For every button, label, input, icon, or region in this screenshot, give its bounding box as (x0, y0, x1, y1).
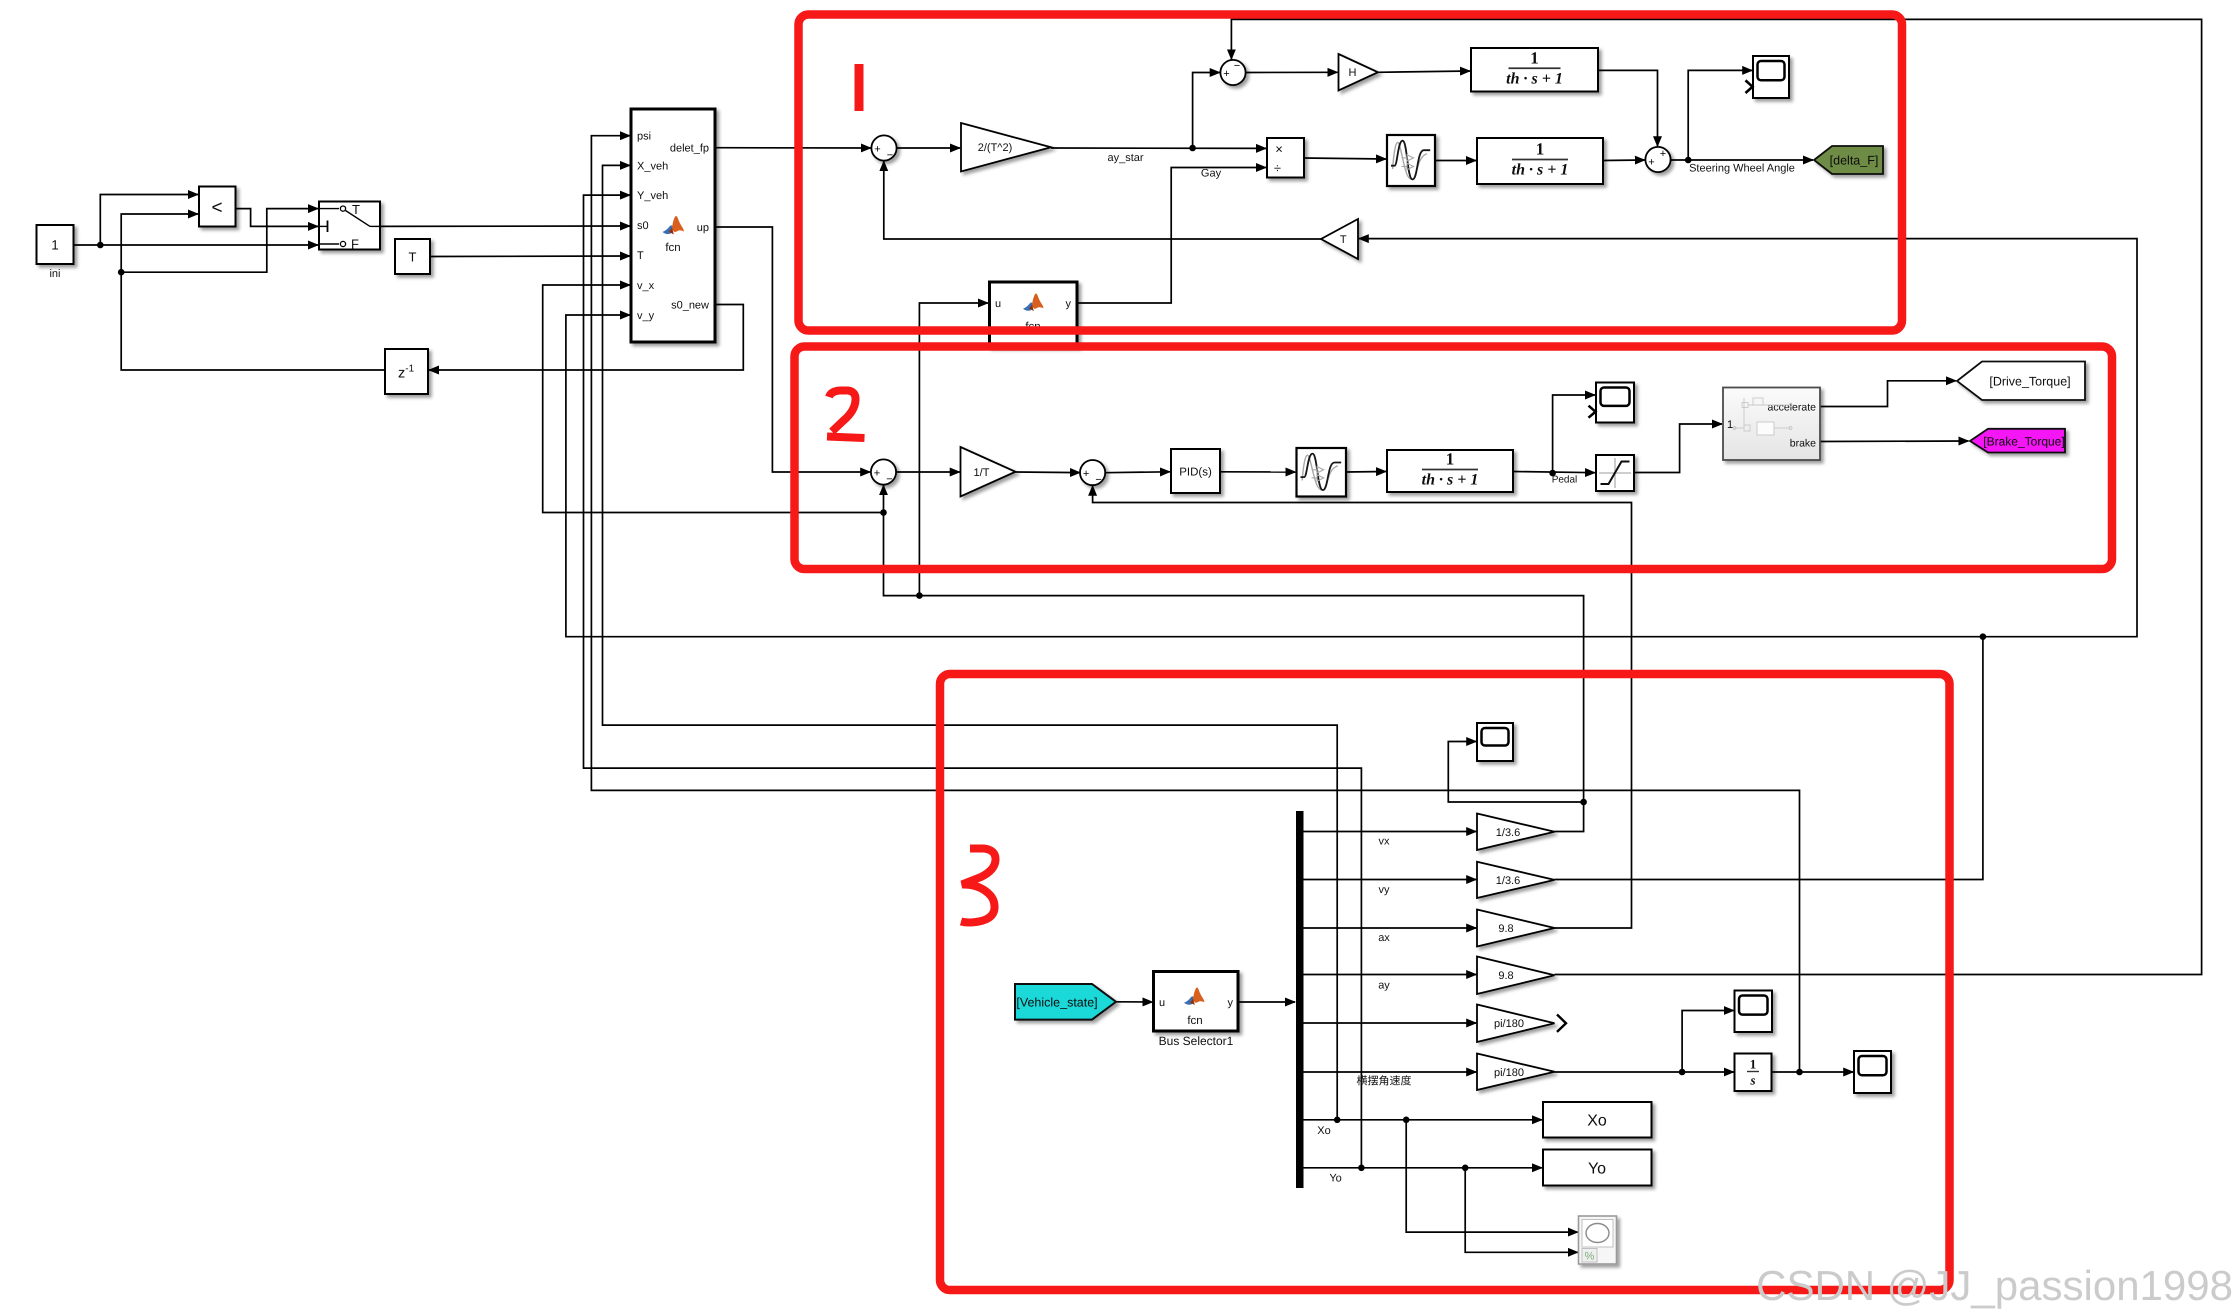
svg-text:s0: s0 (637, 220, 649, 232)
wire: bus ax to gain G3 (1304, 927, 1477, 929)
wire: sum S3 to goto delta_F (1671, 159, 1813, 161)
wire: gain 9.8 ax out to sum S5 bottom (1093, 486, 1632, 928)
wire: bus Xo to display Xo (1304, 1119, 1543, 1121)
node: psi branch (1796, 1069, 1803, 1076)
wire: fcn delet_fp to sum S1 (715, 147, 871, 149)
node: Yo branch to Y_veh (1358, 1165, 1365, 1172)
node: ay_star branch (1189, 145, 1196, 152)
svg-text:%: % (1585, 1251, 1595, 1263)
svg-text:[delta_F]: [delta_F] (1830, 154, 1879, 168)
wire: ini to relational op in1 (100, 195, 198, 246)
svg-text:psi: psi (637, 131, 651, 143)
svg-text:T: T (352, 202, 360, 217)
svg-text:ay_star: ay_star (1107, 152, 1143, 164)
gain G3 9.8 (ax) (1477, 910, 1555, 947)
svg-text:ini: ini (49, 268, 60, 280)
svg-text:pi/180: pi/180 (1494, 1018, 1524, 1030)
wire: yaw rate to scope SC4 (1682, 1011, 1734, 1073)
svg-text:accelerate: accelerate (1768, 402, 1817, 414)
svg-text:−: − (1095, 474, 1101, 486)
wire: Pedal to scope SC2 (1553, 395, 1595, 473)
saturation dynamic SD1 (1387, 135, 1435, 186)
MATLAB function Bus Selector1 (1154, 972, 1239, 1032)
svg-text:÷: ÷ (1274, 161, 1281, 176)
wire: sum S5 to PID (1105, 471, 1170, 474)
node: vx to v_x branch (880, 509, 887, 516)
svg-text:9.8: 9.8 (1498, 923, 1513, 935)
goto tag [Drive_Torque] (1957, 362, 2085, 401)
wire: SD2 to transfer fcn TF3 (1346, 471, 1386, 474)
svg-text:1/T: 1/T (974, 467, 990, 479)
XY graph block (1579, 1216, 1617, 1264)
wire: from Vehicle_state to Bus Selector1 u (1116, 1001, 1153, 1003)
wire: unit delay out to relational op in2 (121, 214, 385, 370)
wire: integrator out (psi) to fcn psi input (591, 136, 1799, 1072)
svg-text:1: 1 (1727, 419, 1733, 431)
node: vx to fcn2 branch (916, 592, 923, 599)
wire: constant T to fcn T (430, 255, 630, 258)
open output marker of G5 (1557, 1015, 1566, 1032)
sum S5 (+-) (1080, 460, 1105, 486)
gain G4 9.8 (ay) (1477, 957, 1555, 995)
wire: saturation to subsystem input (1634, 424, 1722, 473)
svg-text:1: 1 (1446, 450, 1455, 469)
svg-text:th · s + 1: th · s + 1 (1512, 162, 1569, 179)
svg-text:X_veh: X_veh (637, 160, 668, 172)
svg-text:1: 1 (1536, 140, 1545, 159)
sum S2 (-+) (1220, 60, 1245, 85)
wire: Yo to fcn Y_veh input (584, 195, 1362, 1168)
PID controller block (1171, 449, 1220, 493)
svg-text:vx: vx (1379, 836, 1391, 848)
svg-text:横摆角速度: 横摆角速度 (1357, 1075, 1412, 1088)
wire: gain 1/3.6 vx out to sum S4 bottom (884, 485, 1584, 831)
wire: subsystem accelerate to goto Drive_Torque (1820, 381, 1956, 407)
svg-text:+: + (1083, 468, 1089, 480)
svg-text:+: + (1660, 148, 1666, 160)
svg-text:Steering Wheel Angle: Steering Wheel Angle (1689, 163, 1795, 175)
node: ini branch (97, 242, 104, 249)
svg-text:<: < (211, 198, 222, 219)
sum S4 (+-) (871, 459, 896, 485)
svg-text:T: T (1340, 234, 1347, 246)
node: Xo branch to X_veh (1334, 1117, 1341, 1124)
node: vy branch (1980, 633, 1987, 640)
svg-text:F: F (351, 237, 359, 252)
node: yaw rate branch (1679, 1069, 1686, 1076)
node: Yo branch to XY graph (1462, 1165, 1469, 1172)
gain G5 pi/180 (yaw angle) (1477, 1005, 1555, 1043)
svg-text:1: 1 (1530, 48, 1539, 67)
wire: gain 1/3.6 vy out (1555, 637, 1983, 880)
wire: SD1 to transfer fcn TF2 (1435, 160, 1476, 162)
svg-text:9.8: 9.8 (1498, 970, 1513, 982)
wire: gain T out to sum S1 bottom (884, 161, 1321, 239)
transfer fcn TF2 1/(th·s+1) (1477, 138, 1603, 184)
svg-text:y: y (1228, 997, 1234, 1009)
svg-text:1/3.6: 1/3.6 (1496, 875, 1520, 887)
wire: vx to fcn v_x input (543, 285, 884, 513)
svg-text:Pedal: Pedal (1552, 475, 1578, 486)
svg-text:PID(s): PID(s) (1179, 467, 1212, 479)
svg-text:th · s + 1: th · s + 1 (1506, 70, 1563, 87)
goto tag [delta_F] (1814, 146, 1883, 174)
wire: Xo to fcn X_veh input (603, 165, 1338, 1119)
red numeral 1 (855, 64, 864, 111)
wire: gain 9.8 ay feedback to sum S2 top (1231, 19, 2201, 974)
node: vx scope branch (1580, 799, 1587, 806)
node: delay feedback branch (118, 269, 125, 276)
unit delay Z^-1 (385, 349, 428, 394)
svg-text:+: + (874, 468, 880, 480)
wire: gain H to transfer fcn TF1 (1378, 71, 1470, 72)
wire: product out to saturation dyn SD1 (1304, 158, 1386, 159)
wire: Xo to XY graph x input (1406, 1120, 1578, 1232)
svg-text:delet_fp: delet_fp (670, 143, 709, 155)
display Yo (1543, 1150, 1652, 1186)
relational operator < (199, 187, 236, 227)
wire: fcn2 y (Gay) to product divide input (1077, 168, 1266, 304)
svg-text:brake: brake (1790, 438, 1816, 450)
red numeral 2 (827, 391, 865, 439)
svg-text:CSDN @JJ_passion1998: CSDN @JJ_passion1998 (1756, 1262, 2233, 1309)
wire: gain 2/(T^2) out (ay_star) to product X input (1051, 147, 1266, 149)
constant T (395, 239, 430, 274)
wire: bus Yo to display Yo (1304, 1167, 1543, 1169)
svg-text:+: + (1648, 157, 1654, 169)
svg-text:Xo: Xo (1317, 1125, 1330, 1137)
wire: delay feedback to switch T input (121, 209, 318, 273)
wire: steering angle to scope SC1 (1688, 70, 1752, 160)
wire: bus vy to gain G2 (1304, 879, 1477, 881)
wire: TF3 out (Pedal) to saturation (1513, 472, 1595, 473)
node: steering wheel angle branch (1685, 157, 1692, 164)
svg-text:th · s + 1: th · s + 1 (1422, 472, 1479, 489)
wire: sum S2 to gain H (1246, 71, 1338, 73)
wire: integrator to scope SC6 (1772, 1071, 1854, 1073)
wire: bus vx to gain G1 (1304, 831, 1477, 833)
red annotation box 2 (795, 347, 2113, 570)
svg-text:[Brake_Torque]: [Brake_Torque] (1983, 435, 2064, 449)
scope SC2 pedal (1596, 383, 1634, 423)
wire: TF1 to sum S3 top (1598, 70, 1658, 146)
subsystem accelerate/brake (1723, 388, 1820, 461)
wire: bus ay to gain G4 (1304, 974, 1477, 976)
node: Pedal branch (1549, 470, 1556, 477)
gain 1/T (961, 447, 1016, 497)
svg-text:1: 1 (1750, 1057, 1757, 1072)
svg-text:Y_veh: Y_veh (637, 190, 668, 202)
svg-text:s: s (1749, 1073, 1755, 1088)
from tag [Vehicle_state] (1015, 984, 1116, 1020)
wire: switch out to fcn s0 (380, 225, 630, 227)
wire: Yo to XY graph y input (1465, 1168, 1578, 1253)
MATLAB function fcn2 (Gay) (990, 282, 1078, 346)
wire: vy to fcn v_y input (566, 315, 1983, 637)
bus selector bar (1296, 811, 1304, 1188)
scope SC5 vx (1477, 723, 1513, 761)
svg-text:fcn: fcn (1187, 1015, 1202, 1027)
wire: bus yaw angle to gain G5 (1304, 1022, 1477, 1024)
svg-text:−: − (887, 150, 893, 162)
svg-text:ax: ax (1378, 932, 1390, 944)
svg-text:Gay: Gay (1201, 168, 1222, 180)
svg-text:Bus Selector1: Bus Selector1 (1159, 1034, 1234, 1048)
gain H (1339, 54, 1379, 91)
svg-text:Yo: Yo (1329, 1173, 1341, 1185)
red annotation box 3 (940, 674, 1950, 1290)
svg-text:+: + (874, 144, 880, 156)
switch (319, 202, 380, 252)
sum S3 (++) (1645, 147, 1670, 172)
svg-text:u: u (1159, 997, 1165, 1009)
svg-text:×: × (1275, 142, 1283, 157)
svg-text:Yo: Yo (1588, 1161, 1606, 1178)
svg-text:H: H (1349, 67, 1357, 79)
wire: Bus Selector1 y to bus bar (1238, 1001, 1295, 1003)
svg-text:s0_new: s0_new (671, 300, 709, 312)
svg-text:Xo: Xo (1587, 1113, 1607, 1130)
gain G2 1/3.6 (vy) (1477, 862, 1555, 898)
sum S1 (+-) (871, 135, 896, 161)
svg-text:1/3.6: 1/3.6 (1496, 827, 1520, 839)
product block (x / divide) (1267, 138, 1304, 178)
wire: gain pi/180 yaw rate out to integrator (1555, 1071, 1734, 1073)
svg-text:v_y: v_y (637, 310, 655, 322)
wire: fcn s0_new to unit delay (429, 305, 743, 371)
svg-text:[Vehicle_state]: [Vehicle_state] (1016, 996, 1097, 1010)
svg-text:T: T (637, 250, 644, 262)
wire: vy to gain T input (1359, 239, 2137, 637)
scope SC1 steering (1753, 56, 1789, 98)
red numeral 3 (961, 849, 996, 923)
wire: fcn up to sum S4 (715, 227, 870, 472)
svg-text:fcn: fcn (665, 242, 680, 254)
MATLAB function fcn (main) (631, 109, 715, 342)
goto tag [Brake_Torque] (1970, 429, 2065, 453)
svg-text:vy: vy (1379, 884, 1391, 896)
svg-text:−: − (886, 474, 892, 486)
wire: sum S4 to gain 1/T (896, 471, 960, 473)
wire: relational op out to switch control (236, 209, 319, 227)
gain G1 1/3.6 (vx) (1477, 814, 1555, 851)
transfer fcn TF3 1/(th·s+1) (1387, 450, 1513, 493)
node: Xo branch to XY graph (1403, 1117, 1410, 1124)
wire: constant ini to switch F input (74, 244, 319, 246)
svg-text:ay: ay (1378, 979, 1390, 991)
svg-text:T: T (409, 250, 417, 265)
constant ini (37, 225, 74, 264)
display Xo (1543, 1102, 1652, 1138)
svg-text:u: u (995, 298, 1001, 310)
svg-text:[Drive_Torque]: [Drive_Torque] (1989, 375, 2070, 389)
scope SC6 psi (1854, 1051, 1891, 1093)
svg-text:pi/180: pi/180 (1494, 1067, 1524, 1079)
red annotation box 1 (799, 15, 1903, 331)
wire: vx branch to fcn2 u input (919, 303, 988, 596)
saturation dynamic SD2 (1297, 448, 1347, 497)
gain 2/(T^2) (961, 123, 1051, 172)
wire: TF2 to sum S3 (1603, 159, 1645, 162)
saturation block (1596, 455, 1634, 491)
gain G6 pi/180 (yaw rate) (1477, 1054, 1555, 1091)
svg-text:+: + (1223, 68, 1229, 80)
wire: ay_star to sum S2 + input (1193, 73, 1220, 149)
gain T (feedback) (1321, 219, 1358, 259)
transfer fcn TF1 1/(th·s+1) (1471, 48, 1598, 92)
svg-text:2/(T^2): 2/(T^2) (978, 142, 1013, 154)
svg-text:1: 1 (51, 238, 59, 253)
svg-text:−: − (1234, 60, 1240, 72)
integrator 1/s (1735, 1054, 1772, 1092)
wire: PID to saturation dyn SD2 (1220, 471, 1296, 473)
svg-text:v_x: v_x (637, 280, 655, 292)
svg-text:y: y (1066, 298, 1072, 310)
wire: vx to scope SC5 (1448, 742, 1583, 803)
svg-text:up: up (697, 222, 709, 234)
wire: gain 1/T to sum S5 (1016, 471, 1081, 474)
wire: subsystem brake to goto Brake_Torque (1820, 440, 1969, 443)
scope SC4 yaw rate (1735, 991, 1773, 1033)
wire: sum S1 to gain 2/(T^2) (897, 147, 960, 149)
wire: bus yaw rate to gain G6 (1304, 1071, 1477, 1073)
